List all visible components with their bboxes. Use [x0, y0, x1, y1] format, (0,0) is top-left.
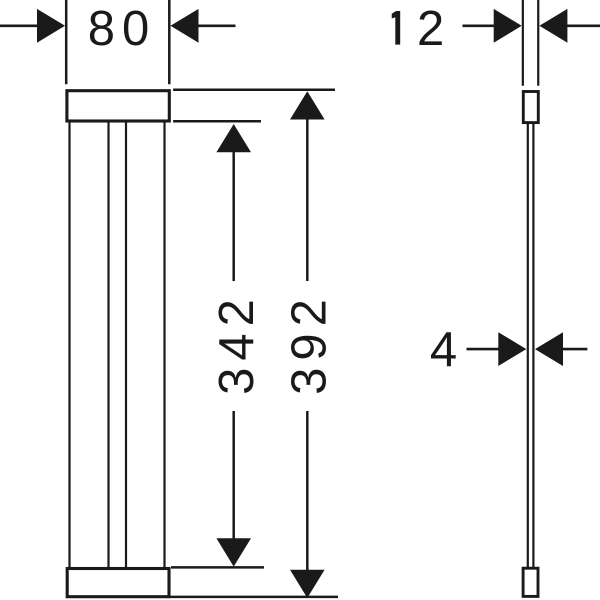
dimension 342: top extension line	[173, 120, 261, 123]
dimension 80: right tail line	[198, 24, 236, 27]
dimension 12: right tail line	[567, 24, 600, 27]
dimension 392: bottom extension line	[170, 596, 339, 599]
dimension 80: right extension line	[168, 0, 171, 84]
front view: rail inner right edge	[125, 122, 127, 567]
side view: bar right edge	[532, 123, 534, 568]
dimension 342: bottom extension line	[171, 566, 264, 569]
dimension 80: left arrowhead	[37, 9, 65, 43]
dimension 12: left tail line	[463, 24, 496, 27]
dimension 392: top arrowhead	[290, 91, 325, 119]
dimension 80: left tail line	[0, 24, 38, 27]
dimension 392: upper line segment	[306, 119, 309, 281]
dimension 12: left arrowhead	[494, 9, 522, 43]
svg-text:80: 80	[88, 2, 157, 56]
dimension 12: left extension line	[522, 0, 524, 86]
dimension 342: top arrowhead	[216, 124, 251, 152]
dimension 80: right arrowhead	[171, 9, 199, 43]
side view: bar left edge	[527, 123, 529, 568]
svg-text:392: 392	[282, 292, 336, 395]
svg-text:342: 342	[210, 292, 264, 395]
dimension 392: top extension line	[173, 89, 335, 92]
dimension 12: right extension line	[537, 0, 539, 86]
front view: bottom cap rectangle	[67, 569, 169, 597]
side view: top cap rectangle	[523, 92, 538, 123]
side view: bottom cap rectangle	[523, 568, 538, 596]
svg-text:2: 2	[417, 2, 444, 56]
dimension 12: value label digit 1	[392, 11, 401, 45]
front view: top cap rectangle	[67, 91, 169, 121]
dimension 342: bottom arrowhead	[216, 538, 251, 566]
dimension 342: upper line segment	[232, 150, 235, 281]
dimension 392: lower line segment	[306, 411, 309, 570]
dimension 12: right arrowhead	[539, 9, 567, 43]
dimension 342: lower line segment	[232, 411, 235, 540]
dimension 392: bottom arrowhead	[290, 570, 325, 598]
dimension 4: left tail line	[467, 348, 500, 351]
front view: rail outer left edge	[68, 122, 70, 567]
front view: rail inner left edge	[107, 122, 109, 567]
front view: rail outer right edge	[163, 122, 165, 567]
dimension 80: left extension line	[65, 0, 68, 84]
dimension 4: left arrowhead	[498, 332, 526, 366]
dimension 4: right tail line	[563, 348, 588, 351]
dimension 4: right arrowhead	[535, 332, 563, 366]
svg-text:4: 4	[430, 323, 464, 377]
